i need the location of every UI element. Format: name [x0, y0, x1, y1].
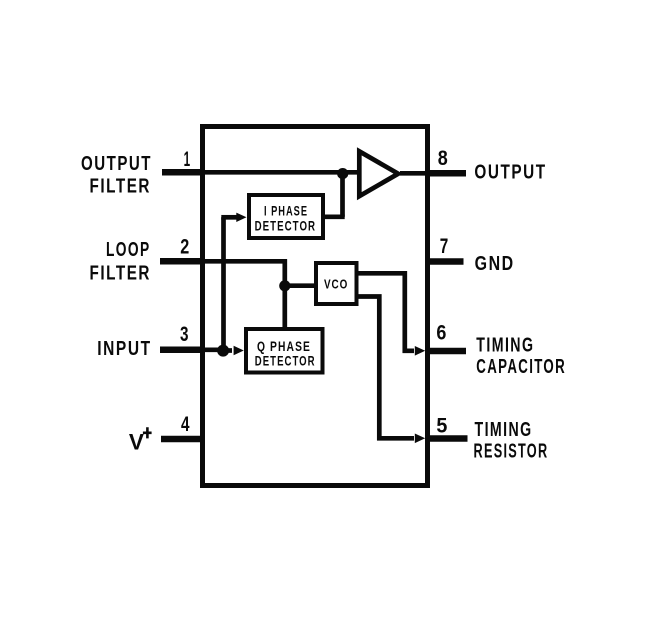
svg-text:VCO: VCO: [324, 278, 348, 292]
svg-text:INPUT: INPUT: [97, 338, 151, 360]
wire VCO to timing resistor corner: [357, 297, 414, 439]
VCO block: [316, 263, 357, 304]
svg-text:FILTER: FILTER: [90, 175, 152, 197]
svg-text:6: 6: [436, 320, 446, 344]
pin 6 stub: [427, 348, 466, 355]
wire node B to VCO: [285, 283, 316, 288]
svg-text:2: 2: [180, 235, 189, 259]
pin 8 stub: [427, 170, 466, 177]
svg-text:CAPACITOR: CAPACITOR: [476, 356, 566, 378]
svg-text:FILTER: FILTER: [90, 263, 152, 285]
wire node C to Q phase arrow: [223, 348, 232, 353]
svg-text:OUTPUT: OUTPUT: [474, 162, 546, 184]
svg-text:5: 5: [436, 414, 447, 438]
wire VCO to timing capacitor corner: [357, 273, 414, 351]
pin 1 stub: [162, 169, 204, 176]
Q phase detector block: [246, 329, 323, 373]
wire pin1 to node A: [204, 170, 359, 175]
arrowhead into pin 5: [415, 434, 425, 444]
pin 4 stub: [161, 436, 204, 443]
arrowhead into I phase detector: [236, 213, 246, 222]
svg-text:OUTPUT: OUTPUT: [81, 153, 152, 175]
arrowhead into pin 6: [415, 346, 425, 356]
pin 3 stub: [160, 347, 204, 354]
I phase detector block: [249, 195, 323, 238]
svg-text:RESISTOR: RESISTOR: [474, 440, 549, 462]
V+ superscript plus: [143, 427, 152, 438]
svg-text:8: 8: [438, 146, 448, 170]
wire pin2 horizontal: [204, 259, 287, 264]
wire node A down: [340, 172, 345, 217]
svg-text:7: 7: [440, 234, 449, 258]
node C junction dot: [217, 345, 229, 357]
IC body outline U1: [203, 127, 428, 486]
output buffer amplifier triangle: [359, 151, 398, 196]
svg-text:LOOP: LOOP: [106, 239, 151, 261]
arrowhead into Q phase detector: [234, 346, 244, 355]
svg-text:V: V: [129, 430, 144, 455]
pin 7 stub: [427, 258, 464, 265]
svg-text:TIMING: TIMING: [475, 419, 533, 441]
svg-text:TIMING: TIMING: [476, 335, 534, 357]
svg-text:1: 1: [184, 147, 191, 171]
node A junction dot: [337, 168, 348, 179]
svg-text:4: 4: [181, 412, 190, 436]
svg-text:DETECTOR: DETECTOR: [255, 218, 317, 234]
svg-text:DETECTOR: DETECTOR: [255, 352, 316, 368]
wire pin3 to node C: [204, 347, 226, 352]
pin 5 stub: [427, 435, 468, 442]
svg-text:GND: GND: [475, 253, 515, 275]
wire pin2 down to Q phase detector: [282, 259, 287, 328]
pin 2 stub: [160, 258, 204, 265]
svg-text:I PHASE: I PHASE: [264, 203, 308, 219]
node B junction dot: [279, 280, 290, 291]
svg-text:3: 3: [180, 322, 189, 346]
wire triangle output to pin 8: [400, 171, 427, 176]
wire to I phase arrow: [221, 215, 237, 220]
wire to I phase detector output: [324, 214, 345, 219]
wire node C up to I phase input: [221, 217, 226, 350]
